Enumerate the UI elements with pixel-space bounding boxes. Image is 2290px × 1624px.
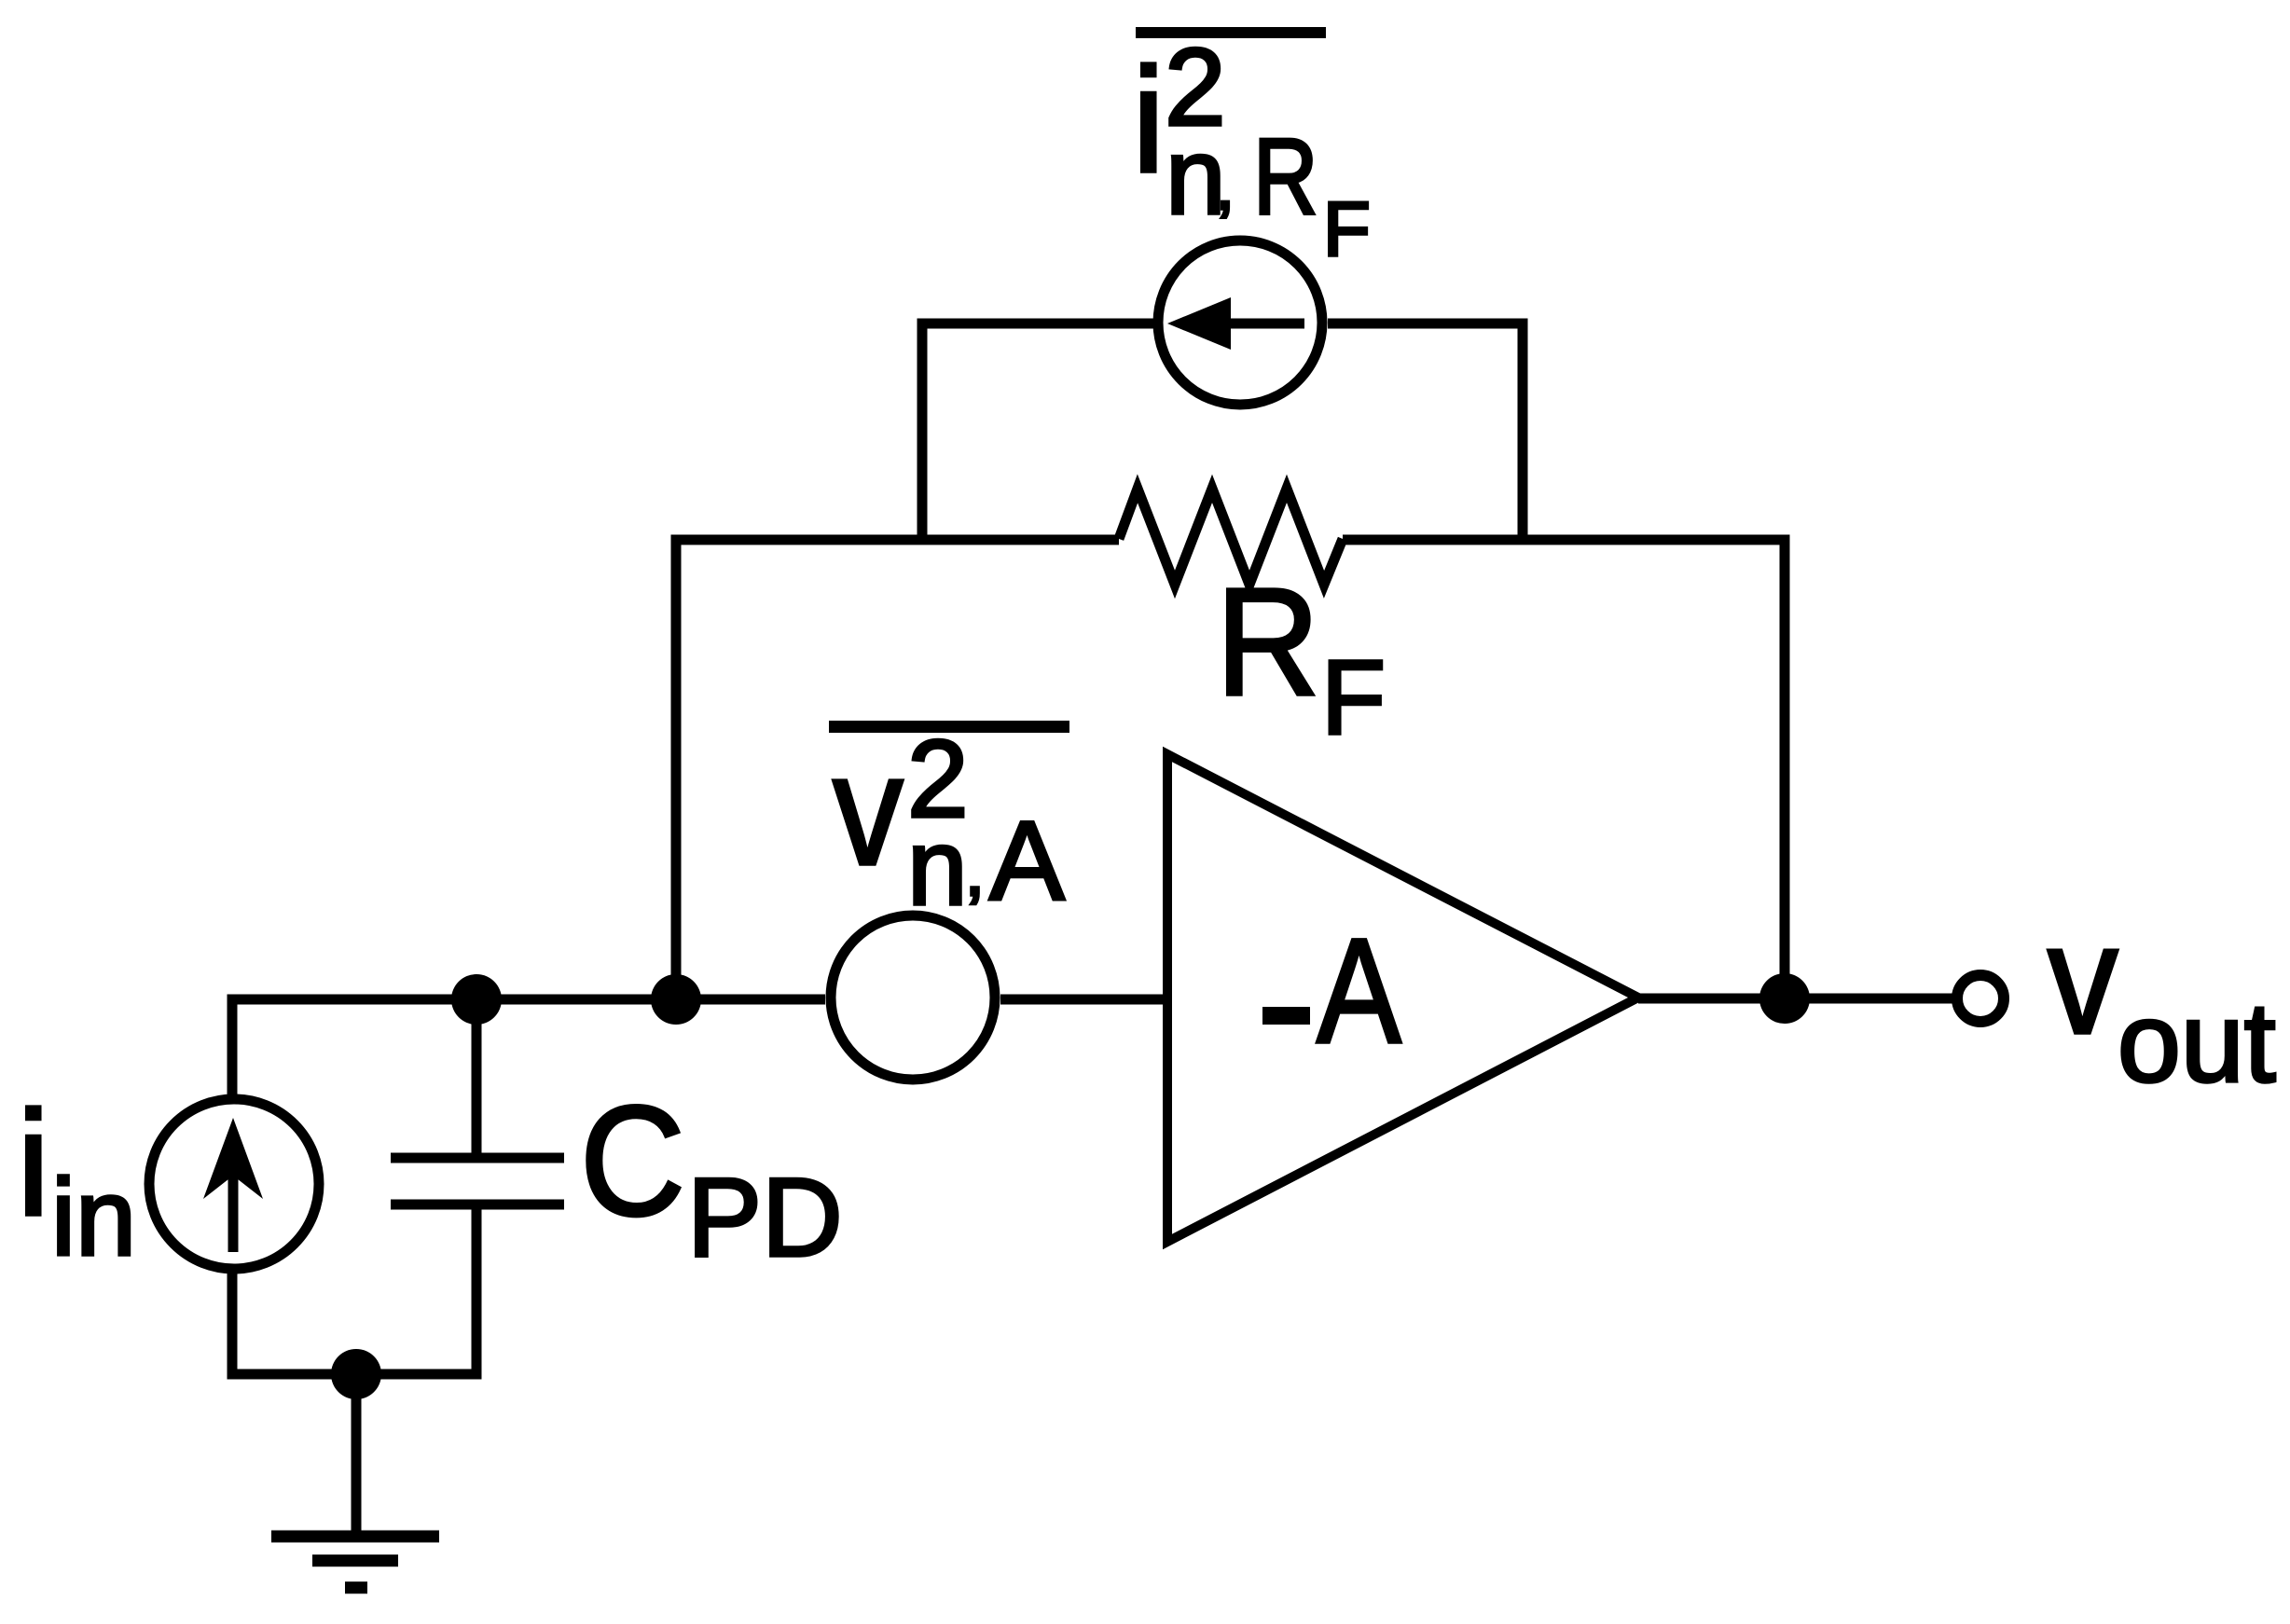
junction dot output node — [1759, 973, 1810, 1024]
wire input node: i_in top lead and main wire to v_n,A — [232, 999, 825, 1096]
svg-text:A: A — [989, 797, 1065, 924]
wire noise-source loop right — [1328, 323, 1523, 540]
current source i_in circle — [149, 1099, 319, 1269]
svg-text:v: v — [833, 722, 904, 899]
noise voltage source v_n,A circle — [831, 915, 995, 1080]
svg-text:PD: PD — [687, 1155, 843, 1280]
junction dot capacitor node — [451, 974, 502, 1025]
svg-text:R: R — [1253, 117, 1318, 237]
wire v_n,A to op-amp input — [1000, 995, 1167, 1005]
ground symbol — [271, 1536, 439, 1588]
svg-text:n: n — [907, 806, 968, 928]
label v2_n,A with overline — [829, 718, 1069, 928]
svg-text:,: , — [1216, 150, 1235, 224]
wire feedback left vertical — [676, 540, 1119, 999]
resistor R_F zigzag — [1119, 489, 1343, 585]
current source i_in arrow — [203, 1118, 263, 1252]
wire capacitor top lead — [472, 999, 482, 1153]
label C_PD — [580, 1074, 843, 1280]
op-amp -A triangle — [1167, 754, 1638, 1242]
junction dot ground node — [331, 1349, 381, 1399]
svg-text:F: F — [1321, 639, 1386, 756]
label R_F — [1216, 557, 1386, 756]
label -A — [1262, 909, 1401, 1075]
wire noise-source loop left — [922, 323, 1153, 540]
label v_out — [2048, 891, 2276, 1106]
svg-text:F: F — [1323, 186, 1371, 272]
svg-text:,: , — [965, 832, 985, 910]
wire feedback right segment and right vertical — [1343, 540, 1785, 999]
wire ground stem — [352, 1374, 362, 1536]
noise current source i_n,RF circle — [1158, 241, 1322, 405]
svg-text:in: in — [51, 1156, 136, 1278]
capacitor C_PD plates — [391, 1158, 564, 1204]
wire i_in bottom lead, ground rail and capacitor bottom lead — [232, 1209, 476, 1374]
svg-text:A: A — [1317, 909, 1401, 1075]
output terminal open circle — [1957, 975, 2004, 1022]
svg-text:i: i — [1132, 36, 1166, 203]
svg-text:i: i — [17, 1080, 50, 1246]
svg-text:v: v — [2048, 891, 2118, 1067]
svg-text:R: R — [1216, 557, 1319, 727]
noise current source i_n,RF arrow — [1167, 297, 1304, 350]
label i_in — [17, 1080, 136, 1278]
svg-text:out: out — [2118, 979, 2276, 1106]
junction dot feedback input node — [651, 974, 701, 1025]
svg-text:C: C — [580, 1074, 685, 1248]
wire op-amp output to v_out terminal — [1638, 994, 1958, 1004]
label i2_n,RF with overline — [1132, 26, 1371, 272]
